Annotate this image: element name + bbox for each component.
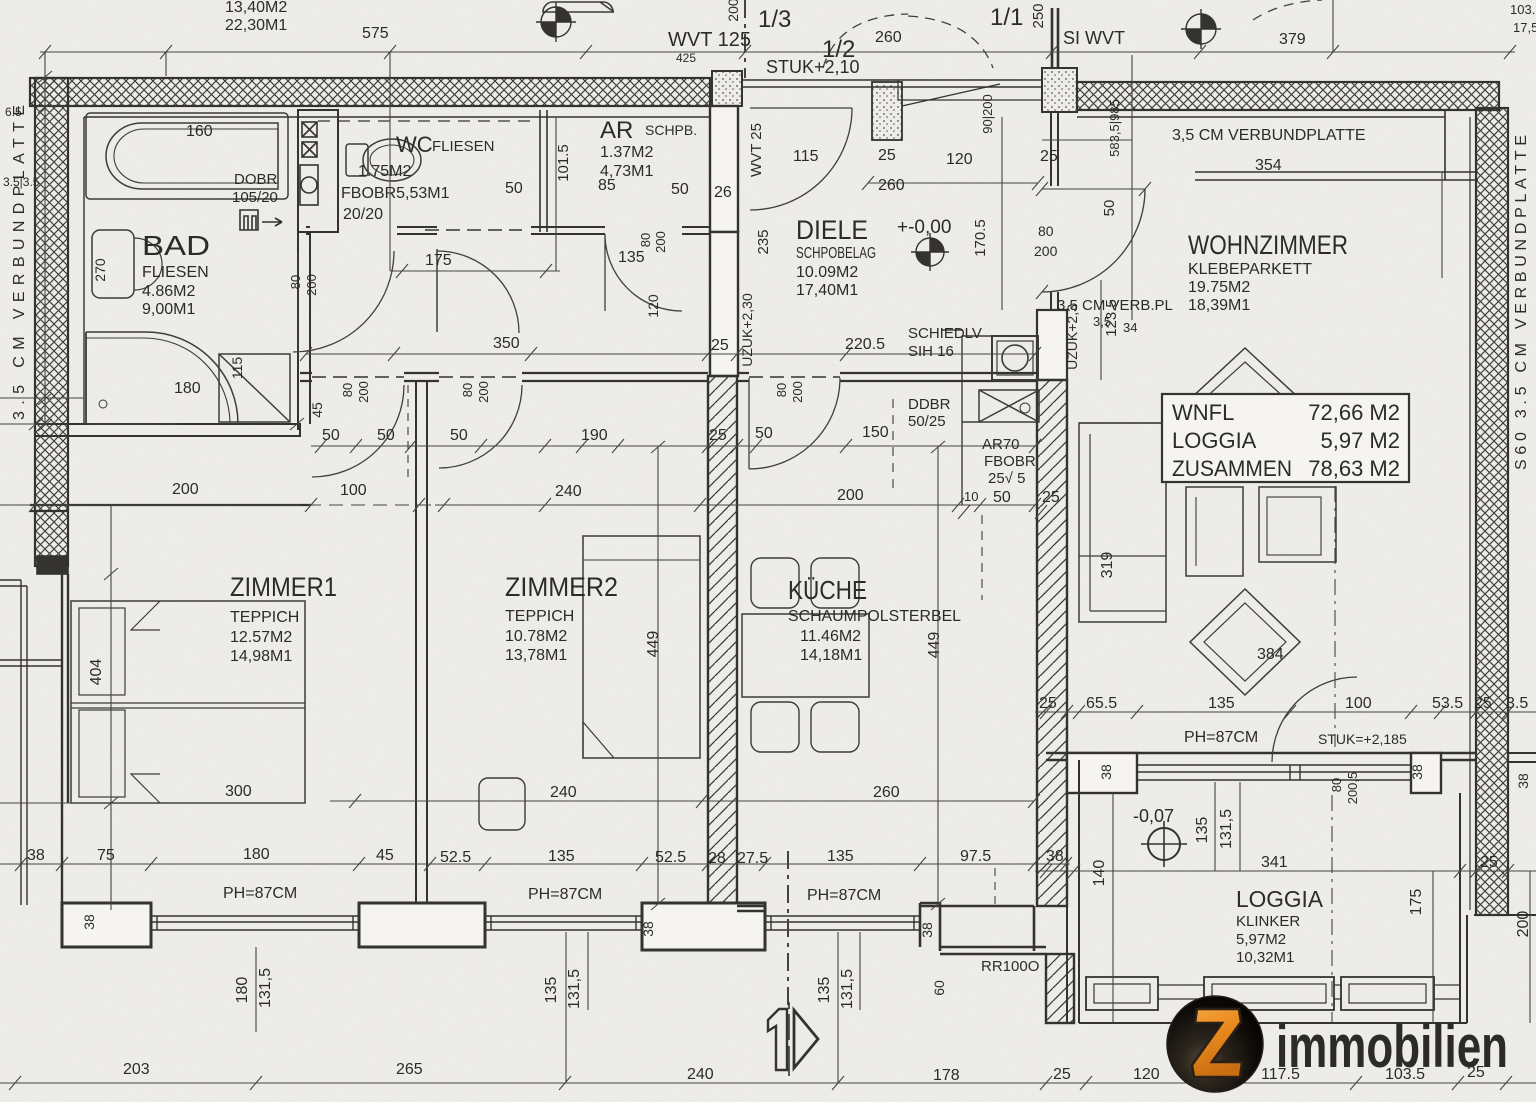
svg-text:10.09M2: 10.09M2: [796, 264, 858, 281]
svg-text:300: 300: [225, 783, 252, 800]
svg-text:28: 28: [708, 850, 726, 867]
bottom pier 2: [359, 903, 485, 947]
ZIMMER1 north-west wall piece: [30, 505, 311, 511]
svg-text:203: 203: [123, 1061, 150, 1078]
interior face line right wall: [1469, 117, 1471, 910]
svg-text:immobilien: immobilien: [1276, 1013, 1508, 1080]
dashed stair arc top: [823, 14, 908, 68]
svg-text:260: 260: [873, 784, 900, 801]
svg-text:3.5|3.5: 3.5|3.5: [3, 175, 40, 189]
section line bottom x=788: [787, 851, 789, 1005]
wohnzimmer south wall: [1046, 753, 1476, 760]
wall DIELE east (x~1051): [1051, 112, 1058, 310]
svg-text:175: 175: [1408, 889, 1425, 916]
svg-text:1/1: 1/1: [990, 4, 1023, 31]
svg-text:80: 80: [340, 383, 355, 397]
letter Z: [1192, 1009, 1242, 1077]
svg-text:235: 235: [755, 229, 772, 254]
washbasin: [92, 230, 162, 298]
svg-text:WVT 125: WVT 125: [668, 29, 751, 51]
door lintel dashed Z1/Z2/Kueche doors: [312, 230, 840, 377]
svg-text:38: 38: [1046, 848, 1064, 865]
svg-text:38: 38: [1515, 773, 1531, 789]
svg-text:FBOBR: FBOBR: [984, 453, 1036, 470]
wall between ZIMMER1 and ZIMMER2: [416, 381, 427, 906]
left vertical dim line: [0, 52, 84, 424]
svg-text:260: 260: [875, 29, 902, 46]
svg-text:65.5: 65.5: [1086, 695, 1117, 712]
svg-text:200: 200: [837, 487, 864, 504]
svg-text:135: 135: [1194, 817, 1211, 844]
svg-text:190: 190: [581, 427, 608, 444]
svg-text:25: 25: [1480, 854, 1498, 871]
svg-text:50: 50: [993, 489, 1011, 506]
svg-text:50: 50: [755, 425, 773, 442]
svg-text:135: 135: [827, 848, 854, 865]
svg-text:SCHAUMPOLSTERBEL: SCHAUMPOLSTERBEL: [788, 608, 961, 625]
loggia railing panel 1: [1086, 977, 1334, 1010]
svg-text:38: 38: [27, 847, 45, 864]
rotated dim labels: [81, 94, 1532, 1009]
svg-text:PH=87CM: PH=87CM: [223, 885, 297, 902]
svg-text:WVT 25: WVT 25: [748, 123, 765, 177]
svg-text:10.78M2: 10.78M2: [505, 628, 567, 645]
wohnzimmer dash-dot x=1358: [1334, 455, 1336, 747]
entry top wall line: [742, 80, 1042, 87]
vertical dim x=256 bottom: [255, 947, 257, 1032]
svg-text:250: 250: [1030, 3, 1047, 28]
dim labels bottom row: [27, 729, 1498, 975]
left wall lower solid part: [62, 574, 68, 903]
svg-text:SI WVT: SI WVT: [1063, 28, 1125, 48]
entry pier dotted right: [1042, 68, 1077, 112]
svg-text:+-0,00: +-0,00: [897, 217, 951, 238]
dim line y=712: [1035, 705, 1536, 719]
door arc BAD: [293, 251, 394, 352]
svg-text:ZIMMER2: ZIMMER2: [505, 572, 618, 602]
svg-text:135: 135: [548, 848, 575, 865]
svg-text:5,97M2: 5,97M2: [1236, 931, 1286, 948]
svg-text:240: 240: [555, 483, 582, 500]
wall BAD south: [35, 424, 300, 436]
svg-text:SCHIEDLV: SCHIEDLV: [908, 325, 982, 342]
svg-text:80: 80: [638, 233, 653, 247]
svg-text:13,78M1: 13,78M1: [505, 647, 567, 664]
svg-text:449: 449: [926, 632, 943, 659]
lintel line at wohnzimmer door: [1042, 139, 1132, 141]
door arc ZIMMER1: [312, 385, 404, 477]
WOHNZIMMER diamond table 1: [1189, 348, 1301, 452]
svg-text:WC: WC: [396, 132, 433, 157]
bottom dim line y=1083: [0, 1076, 1536, 1090]
survey point DIELE: [911, 233, 949, 271]
svg-text:14,18M1: 14,18M1: [800, 647, 862, 664]
svg-text:52.5: 52.5: [440, 849, 471, 866]
wall BAD east: [298, 232, 310, 430]
svg-text:WNFL: WNFL: [1172, 400, 1234, 425]
svg-text:135: 135: [1208, 695, 1235, 712]
svg-text:38: 38: [919, 922, 935, 938]
door arc WC: [605, 234, 682, 311]
dashed entry arc: [908, 16, 993, 68]
svg-text:50: 50: [671, 181, 689, 198]
wohnzimmer south window: [1137, 765, 1411, 780]
svg-text:4.86M2: 4.86M2: [142, 283, 195, 300]
svg-text:131,5: 131,5: [1218, 809, 1235, 849]
svg-text:120: 120: [645, 294, 661, 318]
exterior wall left band (crosshatched): [35, 78, 68, 566]
svg-text:SCHPOBELAG: SCHPOBELAG: [796, 245, 876, 262]
door arc ZIMMER2: [439, 385, 522, 468]
svg-text:25: 25: [709, 427, 727, 444]
vertical dims windows K: [838, 932, 860, 1083]
ZIMMER2 nightstand: [479, 778, 525, 830]
toilet WC: [346, 139, 421, 181]
svg-text:PH=87CM: PH=87CM: [1184, 729, 1258, 746]
svg-text:575: 575: [362, 25, 389, 42]
svg-text:FLIESEN: FLIESEN: [142, 264, 209, 281]
svg-text:KLEBEPARKETT: KLEBEPARKETT: [1188, 261, 1312, 278]
svg-text:19.75M2: 19.75M2: [1188, 279, 1250, 296]
svg-text:135: 135: [816, 977, 833, 1004]
svg-text:3,5 CM VERBUNDPLATTE: 3,5 CM VERBUNDPLATTE: [1172, 127, 1366, 144]
section line top x=745: [744, 0, 746, 78]
loggia dim x=1433: [1432, 871, 1434, 1023]
vertical dim x=658 (449): [651, 441, 665, 910]
svg-text:200: 200: [790, 381, 805, 403]
vertical dim x=111: [104, 505, 118, 910]
svg-text:WOHNZIMMER: WOHNZIMMER: [1188, 230, 1348, 260]
dim labels y=712 row: [1039, 695, 1528, 712]
zimmer1 bed dim line y=803: [0, 794, 1040, 808]
svg-text:200: 200: [172, 481, 199, 498]
WNFL summary table: [1162, 394, 1409, 482]
svg-text:25: 25: [1474, 695, 1492, 712]
dashed line WC ceiling: [318, 120, 538, 122]
door arc LOGGIA (terrace door): [1272, 677, 1357, 762]
door arc entry: [750, 108, 852, 210]
svg-text:180: 180: [174, 380, 201, 397]
svg-text:DIELE: DIELE: [796, 215, 868, 245]
svg-text:20/20: 20/20: [343, 206, 383, 223]
interior face lines of left wall: [68, 106, 84, 560]
dim line y=271 (175): [390, 232, 560, 278]
room label WC: [341, 132, 495, 223]
bath tub: [86, 113, 288, 199]
wall B solid top part: [1037, 310, 1067, 380]
room label AR: [600, 117, 697, 180]
door leaf hall door: [436, 249, 438, 332]
svg-text:LOGGIA: LOGGIA: [1236, 886, 1324, 912]
top dim ticks: [39, 45, 1516, 76]
vertical dim x=1101 (123.5): [1100, 280, 1102, 380]
exterior wall top-right band (crosshatched): [1077, 82, 1499, 110]
svg-text:240: 240: [687, 1066, 714, 1083]
washing machine: [219, 354, 290, 422]
vertical dim x=1002 (170.5): [1001, 117, 1003, 310]
svg-text:200: 200: [1515, 911, 1532, 938]
svg-text:18,39M1: 18,39M1: [1188, 297, 1250, 314]
section mark 1 with arrow: [768, 1002, 818, 1076]
left wall bottom end block: [37, 556, 68, 574]
svg-text:3,5 CM VERB.PL: 3,5 CM VERB.PL: [1057, 297, 1173, 314]
svg-text:100: 100: [1345, 695, 1372, 712]
svg-text:120: 120: [946, 151, 973, 168]
interior face line top-right wall: [1077, 110, 1476, 117]
vertical dim x=938 (449): [931, 441, 945, 910]
svg-text:RR100O: RR100O: [981, 958, 1039, 975]
door arc KUECHE: [749, 378, 840, 469]
svg-text:404: 404: [88, 659, 105, 686]
svg-text:50: 50: [450, 427, 468, 444]
svg-text:131,5: 131,5: [566, 969, 583, 1009]
svg-text:DDBR: DDBR: [908, 396, 951, 413]
WOHNZIMMER armchair 2: [1259, 487, 1336, 562]
room label DIELE: [796, 215, 951, 299]
wall AR east / entry pier (solid, from top wall down): [710, 106, 738, 232]
dashed stair arc top right: [1253, 0, 1322, 20]
svg-text:78,63 M2: 78,63 M2: [1308, 456, 1400, 481]
room label WOHNZIMMER: [1188, 230, 1348, 314]
entry wall thick stub above: [1052, 8, 1058, 68]
svg-text:25√ 5: 25√ 5: [988, 470, 1025, 487]
svg-text:3,5: 3,5: [1093, 314, 1111, 329]
installation shaft between BAD and WC: [298, 110, 338, 232]
svg-text:103.5: 103.5: [1510, 2, 1536, 17]
svg-text:220.5: 220.5: [845, 336, 885, 353]
dim line y=505: [0, 498, 1047, 519]
small labels left margin: [3, 105, 40, 189]
svg-text:240: 240: [550, 784, 577, 801]
vertical dim x=1333 top: [1332, 0, 1334, 52]
svg-text:265: 265: [396, 1061, 423, 1078]
svg-text:14,98M1: 14,98M1: [230, 648, 292, 665]
exterior wall top band (crosshatched): [30, 78, 710, 106]
svg-text:350: 350: [493, 335, 520, 352]
svg-text:BAD: BAD: [142, 230, 210, 261]
svg-text:120: 120: [1133, 1066, 1160, 1083]
svg-text:135: 135: [543, 977, 560, 1004]
entry pier dotted left: [712, 71, 742, 106]
survey point LOGGIA: [1141, 821, 1187, 867]
entry window mid dotted pier: [872, 82, 902, 140]
svg-text:72,66 M2: 72,66 M2: [1308, 400, 1400, 425]
svg-text:11.46M2: 11.46M2: [800, 628, 861, 645]
svg-text:38: 38: [1098, 764, 1114, 780]
vertical dim x=1132: [1131, 55, 1133, 320]
svg-text:160: 160: [186, 123, 213, 140]
svg-text:25: 25: [711, 337, 729, 354]
svg-text:50/25: 50/25: [908, 413, 946, 430]
dim line y=446: [311, 439, 1041, 453]
svg-text:1.75M2: 1.75M2: [358, 163, 411, 180]
svg-text:180: 180: [243, 846, 270, 863]
top main dim line: [40, 51, 1515, 53]
svg-text:80: 80: [460, 383, 475, 397]
svg-text:DOBR: DOBR: [234, 171, 278, 188]
ZIMMER1 double bed: [71, 601, 305, 803]
svg-text:80: 80: [774, 383, 789, 397]
svg-text:17,5: 17,5: [1513, 20, 1536, 35]
svg-text:SIH 16: SIH 16: [908, 343, 954, 360]
svg-text:-0,07: -0,07: [1133, 806, 1174, 826]
svg-text:38: 38: [1409, 764, 1425, 780]
svg-text:6.5: 6.5: [5, 105, 22, 119]
svg-text:80: 80: [1038, 223, 1054, 239]
svg-text:25: 25: [1039, 695, 1057, 712]
corridor south wall (over bedrooms): [300, 373, 1037, 381]
svg-text:17,40M1: 17,40M1: [796, 282, 858, 299]
svg-text:9,00M1: 9,00M1: [142, 301, 195, 318]
room label BAD: [142, 230, 210, 318]
exterior wall right band (crosshatched): [1476, 108, 1508, 915]
KUECHE table: [742, 614, 869, 697]
WOHNZIMMER armchair 1: [1186, 487, 1243, 576]
logo Z-ball: [1167, 996, 1263, 1092]
bottom pier 3: [642, 903, 765, 950]
AR70 niche lines: [942, 330, 992, 505]
svg-text:260: 260: [878, 177, 905, 194]
wohnzimmer NE corner pier: [1444, 110, 1446, 180]
svg-text:12.57M2: 12.57M2: [230, 629, 292, 646]
svg-text:52.5: 52.5: [655, 849, 686, 866]
svg-text:85: 85: [598, 177, 616, 194]
loggia dim x=1530: [1529, 871, 1531, 1023]
entry window sill + open casement diagonal: [898, 80, 1042, 100]
svg-text:50: 50: [377, 427, 395, 444]
svg-text:135: 135: [618, 249, 645, 266]
svg-text:FLIESEN: FLIESEN: [432, 138, 495, 155]
svg-text:131,5: 131,5: [839, 969, 856, 1009]
svg-text:50: 50: [505, 180, 523, 197]
bottom pier 4 + kueche SE step: [737, 903, 1046, 954]
svg-text:TEPPICH: TEPPICH: [505, 608, 574, 625]
chimney block SCHIEDL: [992, 336, 1038, 380]
svg-text:1.37M2: 1.37M2: [600, 144, 653, 161]
svg-text:180: 180: [234, 977, 251, 1004]
svg-text:38: 38: [640, 921, 656, 937]
svg-text:319: 319: [1099, 552, 1116, 579]
svg-text:STUK=+2,185: STUK=+2,185: [1318, 731, 1407, 747]
svg-text:13,40M2: 13,40M2: [225, 0, 287, 16]
partial neighbour fixture top edge: [543, 2, 614, 12]
KUECHE chairs: [751, 558, 859, 752]
svg-text:ZUSAMMEN: ZUSAMMEN: [1172, 456, 1292, 481]
svg-text:178: 178: [933, 1067, 960, 1084]
dim labels mid: [172, 123, 1060, 506]
svg-text:25: 25: [1053, 1066, 1071, 1083]
door arc WOHNZIMMER: [1042, 189, 1145, 292]
svg-text:22,30M1: 22,30M1: [225, 17, 287, 34]
room label KUECHE: [788, 575, 961, 664]
survey point top WC: [536, 2, 576, 42]
interior face line of top wall: [68, 106, 710, 117]
svg-text:50: 50: [322, 427, 340, 444]
svg-text:200: 200: [1034, 243, 1058, 259]
svg-text:45: 45: [376, 847, 394, 864]
svg-text:10: 10: [964, 489, 978, 504]
room label LOGGIA: [1236, 886, 1324, 966]
dim line y=871 right: [1035, 864, 1536, 878]
svg-text:97.5: 97.5: [960, 848, 991, 865]
vertical dim x=1442: [1441, 172, 1443, 278]
vertical dims windows Z2: [566, 932, 588, 1083]
svg-text:5,97 M2: 5,97 M2: [1321, 428, 1401, 453]
svg-text:150: 150: [862, 424, 889, 441]
WOHNZIMMER diamond table 2: [1190, 589, 1300, 695]
svg-text:25: 25: [878, 147, 896, 164]
svg-text:140: 140: [1091, 860, 1108, 887]
dim labels bottom edge: [123, 1061, 1485, 1084]
bottom wall: left pier: [62, 903, 151, 947]
shaft with X (DDBR): [979, 390, 1039, 422]
room label ZIMMER2: [505, 572, 618, 664]
svg-text:KÜCHE: KÜCHE: [788, 575, 867, 605]
svg-text:27.5: 27.5: [737, 850, 768, 867]
svg-text:PH=87CM: PH=87CM: [807, 887, 881, 904]
svg-text:PH=87CM: PH=87CM: [528, 886, 602, 903]
door arc hall->bedroom hall: [437, 251, 519, 333]
room label ZIMMER1: [225, 572, 900, 801]
dim line y=354: [300, 347, 1041, 361]
svg-text:200: 200: [725, 0, 741, 22]
load wall B (diagonal hatch) between KUECHE and WOHNZIMMER: [1037, 380, 1067, 906]
svg-text:101.5: 101.5: [555, 144, 572, 182]
tick marks misc at walls: [29, 418, 304, 430]
svg-text:FBOBR5,53M1: FBOBR5,53M1: [341, 185, 450, 202]
svg-text:131,5: 131,5: [257, 968, 274, 1008]
top area labels: [225, 0, 1536, 77]
loggia dim x=1113: [1112, 793, 1114, 1023]
svg-text:175: 175: [425, 252, 452, 269]
svg-text:26: 26: [714, 184, 732, 201]
svg-text:60: 60: [931, 980, 947, 996]
svg-text:200: 200: [356, 381, 371, 403]
svg-text:LOGGIA: LOGGIA: [1172, 428, 1257, 453]
vertical dim x=556 (101.5): [555, 117, 557, 232]
wohnzimmer window piers: [1067, 753, 1137, 793]
svg-text:115: 115: [793, 148, 819, 165]
svg-text:AR: AR: [600, 117, 633, 144]
loggia west wall: [1067, 760, 1079, 1023]
svg-text:TEPPICH: TEPPICH: [230, 609, 299, 626]
survey symbols: [536, 2, 1221, 867]
DDBR/LU labels BAD: [232, 171, 1036, 487]
svg-text:25: 25: [1042, 489, 1060, 506]
WOHNZIMMER sofa: [1079, 423, 1166, 622]
svg-text:449: 449: [645, 631, 662, 658]
svg-text:45: 45: [309, 402, 325, 418]
LU vent symbol: [240, 210, 282, 230]
bottom window ZIMMER1: [151, 916, 359, 930]
dim line y=864: [0, 857, 1072, 871]
load wall A (diagonal hatch) between ZIMMER2 and KUECHE: [708, 376, 737, 906]
svg-text:583,5|985: 583,5|985: [1107, 99, 1122, 157]
svg-text:425: 425: [676, 51, 696, 65]
wall WC/AR south: [306, 227, 712, 234]
survey point top right: [1181, 9, 1221, 49]
svg-text:379: 379: [1279, 31, 1306, 48]
neighbour balcony left edge: [0, 580, 62, 905]
svg-text:170.5: 170.5: [972, 219, 989, 257]
svg-text:80: 80: [288, 275, 303, 289]
svg-text:38: 38: [81, 914, 97, 930]
neighbour wall stubs right edge: [1474, 753, 1536, 915]
wall WC east: [540, 110, 547, 232]
vertical dim x=390 top: [389, 52, 391, 232]
svg-text:50: 50: [1101, 200, 1118, 217]
svg-text:1/3: 1/3: [758, 6, 791, 33]
